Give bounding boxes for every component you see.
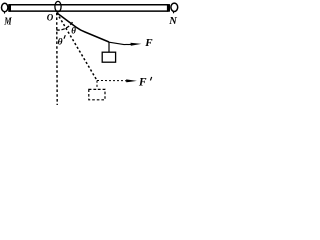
vertical dashed reference line from O — [56, 13, 59, 105]
svg-text:θ: θ — [58, 38, 63, 48]
dashed stem from dashed junction to dashed block — [96, 81, 98, 90]
svg-text:F: F — [138, 76, 147, 88]
hanging block (solid) — [102, 52, 115, 62]
force F-prime arrowhead — [126, 79, 137, 82]
svg-text:F: F — [144, 37, 153, 49]
prime mark of F-prime — [150, 77, 151, 81]
dashed force F-prime line — [97, 80, 127, 82]
force F line — [109, 42, 131, 44]
hanging block (dashed) — [89, 89, 105, 99]
stem from solid string junction to block — [108, 42, 110, 52]
tick below right ring — [173, 12, 175, 14]
prime mark of theta-prime — [64, 35, 65, 39]
angle arc through theta and theta-prime — [56, 21, 73, 30]
ring at N (right end) — [171, 3, 178, 11]
force F arrowhead — [131, 43, 142, 46]
rod left end cap — [8, 4, 11, 12]
rod MN bottom edge — [9, 10, 169, 12]
rod MN top edge — [9, 4, 169, 6]
small ring at O on the rod — [55, 1, 61, 11]
svg-text:θ: θ — [71, 25, 76, 35]
tick below left ring — [4, 12, 6, 14]
svg-text:O: O — [47, 13, 54, 23]
rod right end cap — [167, 4, 170, 12]
ring at M (left end) — [1, 3, 7, 11]
svg-text:N: N — [168, 16, 177, 27]
solid string at angle theta from O — [57, 13, 109, 42]
dashed string at angle theta-prime from O — [57, 13, 97, 81]
svg-text:M: M — [3, 16, 12, 27]
